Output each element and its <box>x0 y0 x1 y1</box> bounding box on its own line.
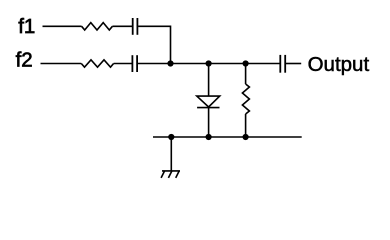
ground <box>161 171 180 178</box>
wire bottom rail <box>153 136 302 138</box>
svg-text:f1: f1 <box>18 15 35 38</box>
wire top rail C2 to C3 <box>138 63 280 65</box>
node f1 <box>18 15 35 38</box>
capacitor C1 <box>133 18 138 35</box>
node Output <box>308 53 370 76</box>
wire diode cathode <box>208 108 210 137</box>
capacitor C2 <box>132 55 137 72</box>
wire corner down to junction A <box>170 26 172 64</box>
svg-text:f2: f2 <box>16 49 33 72</box>
resistor R2 <box>81 60 113 67</box>
resistor R1 <box>82 23 113 30</box>
wire resistor R3 top lead <box>245 64 247 85</box>
junction A (f1/f2 join) <box>167 60 173 66</box>
svg-text:Output: Output <box>308 53 370 76</box>
wire f1 input <box>43 25 82 27</box>
junction diode bottom <box>206 134 212 140</box>
wire R2 to C2 <box>114 63 132 65</box>
junction resistor bottom <box>243 134 249 140</box>
junction diode top <box>206 60 212 66</box>
wire resistor R3 bottom lead <box>245 114 247 137</box>
junction resistor top <box>243 60 249 66</box>
wire diode anode <box>208 64 210 97</box>
node f2 <box>16 49 33 72</box>
wire C1 to corner <box>138 25 170 27</box>
wire C3 to output <box>286 63 301 65</box>
resistor R3 <box>242 84 249 114</box>
junction ground <box>168 134 174 140</box>
wire f2 input <box>41 63 82 65</box>
wire R1 to C1 <box>112 25 132 27</box>
wire ground lead <box>170 137 172 171</box>
capacitor C3 <box>280 55 285 73</box>
diode D1 <box>197 96 220 108</box>
